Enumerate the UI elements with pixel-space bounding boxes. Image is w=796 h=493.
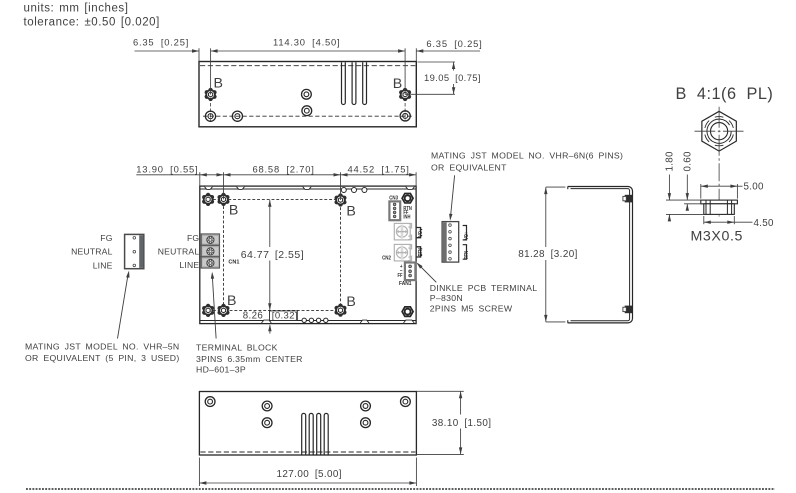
- dim 38.10 [1.50]: [416, 390, 463, 392]
- middle view top inner edge: [200, 188, 416, 190]
- corner bolt top-left b (B): [218, 195, 229, 204]
- svg-text:RTN: RTN: [418, 248, 423, 256]
- svg-text:RTN: RTN: [464, 251, 469, 259]
- connector FAN1: [405, 263, 416, 281]
- svg-text:114.30 [4.50]: 114.30 [4.50]: [273, 37, 340, 48]
- side view clip top: [625, 195, 633, 203]
- corner bolt top-left a: [203, 195, 214, 204]
- svg-text:CN1: CN1: [228, 260, 239, 266]
- svg-text:2PINS M5 SCREW: 2PINS M5 SCREW: [430, 304, 513, 314]
- top view dashed link right bolt: [404, 98, 406, 122]
- svg-text:44.52 [1.75]: 44.52 [1.75]: [348, 163, 410, 174]
- svg-text:6.35 [0.25]: 6.35 [0.25]: [426, 38, 482, 49]
- svg-text:NEUTRAL: NEUTRAL: [71, 247, 113, 257]
- detail B nut side view flange: [701, 200, 738, 204]
- detail B extension lines: [666, 199, 701, 201]
- svg-text:LINE: LINE: [179, 260, 199, 270]
- svg-text:FG: FG: [187, 233, 199, 243]
- svg-text:VO+: VO+: [418, 228, 423, 237]
- side view clip bottom: [625, 306, 633, 314]
- edge tab RTN: [417, 247, 421, 257]
- svg-text:MATING JST MODEL NO. VHR–5N: MATING JST MODEL NO. VHR–5N: [25, 341, 179, 351]
- svg-text:INH: INH: [403, 214, 410, 219]
- connector VHR-5N symbol: [125, 234, 144, 268]
- svg-text:M3X0.5: M3X0.5: [691, 229, 744, 245]
- leader arrow terminal block: [212, 276, 216, 339]
- dim 19.05 [0.75]: [418, 61, 456, 63]
- dashed mounting rectangle: [224, 199, 341, 310]
- svg-text:VO+: VO+: [464, 231, 469, 240]
- dim 5.00: [700, 184, 702, 199]
- terminal block CN1: [201, 234, 219, 268]
- middle view outline: [200, 186, 416, 324]
- detail B centerline horizontal: [695, 130, 716, 132]
- connector CN3: [389, 201, 400, 220]
- top view vent slot 1: [342, 62, 346, 104]
- leader arrow VHR-6N: [451, 175, 455, 217]
- detail B centerline vertical: [718, 107, 720, 128]
- middle dims extension lines: [199, 172, 201, 186]
- top slot end holes: [341, 188, 346, 193]
- svg-text:B: B: [214, 75, 223, 91]
- bottom view vent slots: [302, 413, 306, 454]
- svg-text:DINKLE PCB TERMINAL: DINKLE PCB TERMINAL: [430, 283, 538, 293]
- top view hidden edge dashed line: [200, 65, 415, 67]
- corner bolt top-right (B): [335, 195, 346, 204]
- detail B chamfer arcs: [729, 134, 733, 141]
- top view mounting bolt B left: [205, 90, 216, 99]
- svg-text:38.10 [1.50]: 38.10 [1.50]: [432, 418, 492, 429]
- svg-text:[0.32]: [0.32]: [272, 310, 298, 321]
- bottom slot end holes: [302, 318, 306, 322]
- top view mounting bolt B right: [400, 90, 411, 99]
- hex nut right bottom: [402, 307, 413, 317]
- side view inner wall: [571, 189, 630, 321]
- bottom view dashed edge: [200, 451, 415, 453]
- svg-text:19.05 [0.75]: 19.05 [0.75]: [424, 72, 481, 83]
- svg-text:127.00 [5.00]: 127.00 [5.00]: [277, 469, 342, 480]
- dashed extension to left nuts: [208, 198, 223, 200]
- dim 64.77 [2.55]: [269, 200, 271, 247]
- leader arrow DINKLE: [418, 264, 436, 282]
- svg-text:3PINS 6.35mm CENTER: 3PINS 6.35mm CENTER: [196, 354, 303, 364]
- svg-text:B: B: [346, 204, 355, 220]
- svg-text:HD–601–3P: HD–601–3P: [196, 364, 246, 374]
- svg-text:CN3: CN3: [389, 195, 398, 202]
- svg-text:B: B: [346, 294, 355, 310]
- side view bracket outline: [568, 187, 633, 323]
- svg-text:MATING JST MODEL NO. VHR–6N(6: MATING JST MODEL NO. VHR–6N(6 PINS): [431, 151, 623, 161]
- svg-text:B 4:1(6 PL): B 4:1(6 PL): [676, 85, 774, 103]
- detail B thread circle: [707, 119, 731, 143]
- svg-text:OR EQUIVALENT (5 PIN, 3 USED): OR EQUIVALENT (5 PIN, 3 USED): [25, 353, 180, 363]
- svg-text:B: B: [229, 203, 238, 219]
- svg-text:4.50: 4.50: [754, 218, 775, 229]
- svg-text:68.58 [2.70]: 68.58 [2.70]: [253, 163, 315, 174]
- hex nut right top: [402, 193, 413, 203]
- top view hole bottom left2: [232, 111, 242, 121]
- potentiometer VO+ adjust: [394, 223, 410, 240]
- svg-text:13.90 [0.55]: 13.90 [0.55]: [136, 163, 198, 174]
- top edge tabs: [205, 187, 213, 190]
- corner bolt bottom-left a: [203, 306, 214, 315]
- corner bolt bottom-right (B): [335, 306, 346, 315]
- pin group bracket VO+: [463, 226, 467, 240]
- svg-text:5.00: 5.00: [744, 182, 765, 193]
- svg-text:6.35 [0.25]: 6.35 [0.25]: [133, 37, 189, 48]
- top view hole centerline dashed: [203, 115, 413, 117]
- pin group bracket RTN: [463, 245, 467, 260]
- bottom edge tabs: [262, 320, 272, 323]
- edge tab VO+: [417, 228, 421, 238]
- detail B hole circle: [711, 123, 728, 140]
- bottom view holes: [205, 397, 215, 407]
- top view vent slot 3: [363, 62, 367, 104]
- svg-text:B: B: [393, 76, 402, 92]
- svg-text:units: mm [inches]: units: mm [inches]: [24, 2, 129, 14]
- svg-text:tolerance: ±0.50 [0.020]: tolerance: ±0.50 [0.020]: [24, 17, 160, 29]
- svg-text:NEUTRAL: NEUTRAL: [158, 247, 200, 257]
- top view screw bottom left: [205, 111, 215, 121]
- svg-text:P–830N: P–830N: [430, 293, 463, 303]
- side view end ticks: [567, 187, 569, 190]
- svg-text:TERMINAL BLOCK: TERMINAL BLOCK: [196, 342, 278, 352]
- svg-text:B: B: [227, 293, 236, 309]
- top view vent slot 2: [352, 62, 356, 104]
- svg-text:OR EQUIVALENT: OR EQUIVALENT: [431, 162, 507, 172]
- svg-text:1.80: 1.80: [665, 151, 676, 172]
- dim 81.28 [3.20]: [546, 186, 566, 188]
- top view chassis outline: [199, 62, 416, 127]
- potentiometer CN2 adjust: [394, 244, 410, 261]
- connector VHR-6N symbol: [442, 222, 459, 263]
- top view dashed link left bolt: [210, 98, 212, 122]
- detail B nut side view body: [704, 204, 735, 215]
- svg-text:LINE: LINE: [93, 260, 113, 270]
- leader arrow VHR-5N: [118, 274, 129, 339]
- detail B nut hexagon: [702, 111, 736, 151]
- bottom view outline: [199, 392, 416, 456]
- svg-text:0.60: 0.60: [682, 151, 693, 172]
- svg-text:81.28 [3.20]: 81.28 [3.20]: [518, 249, 578, 260]
- top view screw bottom right: [400, 111, 410, 121]
- extension lines top view dims: [198, 48, 200, 61]
- dim 127.00 [5.00]: [198, 458, 200, 487]
- page break dotted line: [26, 488, 775, 490]
- corner bolt bottom-left b (B): [218, 306, 229, 315]
- dim 4.50: [703, 216, 705, 224]
- svg-text:8.26: 8.26: [243, 311, 263, 322]
- detail B side view facet lines: [705, 200, 707, 214]
- svg-text:FG: FG: [100, 233, 112, 243]
- middle view bottom inner edge: [200, 320, 416, 322]
- svg-text:64.77 [2.55]: 64.77 [2.55]: [241, 249, 304, 261]
- top view hole lower middle: [302, 106, 312, 116]
- svg-text:FF: FF: [397, 273, 402, 278]
- top view hole upper middle: [302, 89, 312, 99]
- svg-text:CN2: CN2: [382, 255, 391, 262]
- svg-text:FAN1: FAN1: [399, 281, 412, 287]
